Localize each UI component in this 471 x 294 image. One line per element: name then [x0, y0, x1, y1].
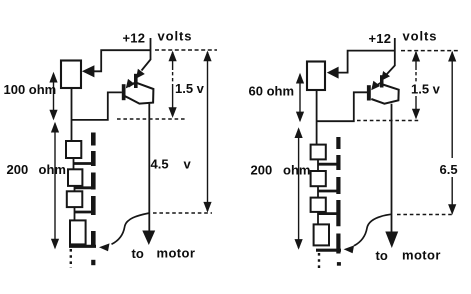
brush bar dashed (right) — [336, 137, 340, 254]
svg-text:200: 200 — [251, 163, 273, 178]
tap wire 1 (right) — [318, 163, 337, 166]
dotted chain continuation (right) — [318, 253, 320, 270]
svg-text:ohm: ohm — [283, 163, 310, 178]
collector outline Q3/Q4 (right) — [371, 85, 398, 104]
svg-text:+12: +12 — [123, 31, 146, 46]
potentiometer R2 60 ohm body — [307, 62, 325, 91]
svg-text:volts: volts — [158, 29, 193, 44]
svg-text:v: v — [184, 157, 192, 172]
tap wire 3 (right) — [318, 212, 337, 215]
wire +12 rail stub (left) — [150, 38, 152, 60]
dimension arrow 6.5 (right) — [448, 51, 456, 215]
brush bar end dash (left) — [91, 260, 95, 265]
base bar Q4 (right) — [367, 85, 371, 100]
dimension arrow 1.5 v (right) — [412, 51, 420, 120]
wire +12 rail stub (right) — [394, 38, 396, 66]
dashed +12 reference level (right) — [401, 50, 459, 52]
brush bar end dash (right) — [337, 262, 341, 266]
dashed motor level (right) — [397, 214, 452, 216]
svg-text:motor: motor — [157, 246, 196, 261]
svg-text:volts: volts — [403, 29, 438, 44]
resistor chain box 1 (right) — [311, 145, 326, 160]
tap wire 4 (right) — [316, 249, 341, 252]
tap wire 4 (left) — [69, 245, 96, 248]
arrow to motor (right) — [385, 232, 398, 249]
svg-text:to: to — [376, 248, 388, 263]
wire collector to motor (left) — [148, 104, 150, 231]
emitter arrow Q4 (right) — [371, 81, 380, 91]
dimension arrow 200 ohm (right) — [295, 127, 303, 250]
svg-text:4.5: 4.5 — [151, 157, 169, 172]
tap wire 1 (left) — [74, 162, 93, 165]
svg-text:60 ohm: 60 ohm — [249, 84, 295, 99]
wire box1-box2 (right) — [317, 159, 319, 171]
svg-text:motor: motor — [402, 248, 441, 263]
potentiometer R1 100 ohm body — [61, 61, 81, 89]
resistor chain box 4 (right) — [314, 224, 329, 245]
dimension arrow 60 ohm — [296, 73, 304, 123]
dimension arrow 200 ohm (left) — [51, 122, 59, 250]
wire emitter from +12 to Q1 (left) — [142, 60, 151, 71]
wire wiper to +12 rail (right) — [338, 51, 395, 73]
arrow to motor (left) — [142, 231, 155, 246]
tap wire 2 (right) — [318, 190, 337, 193]
emitter arrow Q2 (left) — [126, 79, 135, 89]
tap wire 2 (left) — [75, 186, 93, 189]
wire box2-box3 (left) — [74, 186, 76, 191]
dashed +12 reference level (left) — [155, 49, 217, 51]
resistor chain box 2 (right) — [311, 171, 326, 186]
potentiometer R1 wiper arrow — [82, 65, 95, 77]
curved wire to brush (left) — [112, 213, 150, 244]
emitter arrow Q3 (right) — [381, 71, 390, 81]
dimension arrow 1.5 v (left) — [169, 51, 177, 118]
base bar Q2 (left) — [122, 84, 126, 100]
wire box2-box3 (right) — [317, 186, 319, 197]
resistor chain box 4 (left) — [70, 220, 86, 244]
resistor chain box 3 (right) — [311, 198, 326, 212]
curved wire arrowhead (right) — [344, 245, 355, 253]
wire Q2 base to divider tap (left) — [72, 92, 122, 120]
dotted chain continuation (left) — [70, 249, 72, 268]
svg-text:100 ohm: 100 ohm — [4, 82, 57, 97]
curved wire arrowhead (left) — [99, 243, 110, 251]
wire pot bottom to resistor chain (right) — [316, 90, 318, 145]
svg-text:6.5: 6.5 — [440, 162, 458, 177]
tap wire 3 (left) — [75, 211, 93, 214]
wire collector to motor (right) — [391, 104, 393, 232]
svg-text:ohm: ohm — [39, 162, 66, 177]
brush bar dashed (left) — [91, 133, 96, 247]
dimension arrow 100 ohm — [49, 72, 57, 121]
wire pot bottom to resistor chain (left) — [71, 88, 73, 141]
resistor chain box 2 (left) — [68, 169, 82, 186]
base bar Q3 (right) — [380, 75, 384, 87]
curved wire to brush (right) — [354, 214, 392, 246]
collector outline Q1/Q2 (left) — [123, 83, 154, 104]
dashed motor level (left) — [153, 212, 212, 214]
wire box3-box4 (right) — [317, 212, 319, 225]
wire Q4 base to divider tap (right) — [317, 92, 367, 121]
wire Q3 emitter to Q4 (right) — [374, 83, 380, 87]
dashed emitter level (right) — [357, 120, 420, 122]
svg-text:200: 200 — [7, 162, 29, 177]
svg-text:+12: +12 — [369, 31, 392, 46]
dashed emitter level (left) — [117, 118, 186, 120]
base bar Q1 (left) — [134, 74, 138, 88]
wire box1-box2 (left) — [73, 158, 75, 169]
wire wiper to +12 rail (left) — [94, 50, 151, 71]
wire box3-box4 (left) — [74, 207, 76, 220]
resistor chain box 1 (left) — [66, 141, 81, 158]
svg-text:1.5 v: 1.5 v — [175, 81, 205, 96]
dimension arrow 4.5 v (left) — [203, 51, 211, 213]
wire emitter from +12 to Q3 (right) — [387, 66, 395, 75]
resistor chain box 3 (left) — [67, 191, 83, 207]
svg-text:1.5 v: 1.5 v — [411, 82, 441, 97]
emitter arrow Q1 (left) — [136, 69, 145, 79]
potentiometer R2 wiper arrow — [327, 67, 339, 79]
wire Q1 emitter to Q2 (left) — [129, 83, 135, 87]
svg-text:to: to — [132, 246, 144, 261]
